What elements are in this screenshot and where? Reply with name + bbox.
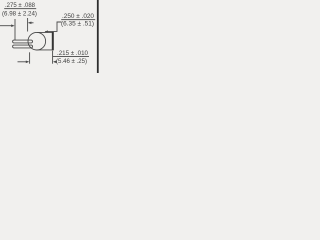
can silhouette top line: [37, 31, 54, 33]
can body circle (end face): [28, 32, 46, 50]
can silhouette bottom line: [37, 49, 54, 51]
leader line from .250 text to can top: [45, 22, 61, 31]
fraction bar top-left: [4, 7, 36, 10]
background: [0, 0, 100, 73]
lead 2 lower wire: [13, 45, 33, 48]
svg-text:(6.98 ± 2.24): (6.98 ± 2.24): [2, 11, 37, 18]
bottom arrowhead pointing right: [26, 61, 29, 64]
svg-text:.215 ± .010: .215 ± .010: [57, 50, 88, 57]
svg-text:.275 ± .088: .275 ± .088: [5, 2, 35, 9]
lead 1 upper wire: [13, 40, 33, 43]
dimension arrow tail right outside: [29, 22, 34, 24]
extension line below can right face: [52, 51, 54, 64]
extension line at lead tips: [14, 19, 16, 40]
arrowhead pointing right at lead-tip extension: [11, 24, 14, 27]
extension line at can left edge: [27, 18, 29, 32]
page border line right edge: [97, 0, 99, 73]
arrowhead pointing left at can-left extension: [28, 22, 31, 25]
bottom dimension arrow tail right: [54, 61, 57, 63]
bottom dimension arrow tail left: [18, 61, 28, 63]
can far face edge bar: [52, 32, 54, 50]
bottom arrowhead pointing left: [53, 61, 56, 64]
svg-text:.250 ± .020: .250 ± .020: [62, 13, 95, 20]
extension line below can left: [29, 52, 31, 63]
svg-text:(5.46 ± .25): (5.46 ± .25): [56, 58, 87, 65]
arrowhead on .250 leader at can top: [45, 30, 48, 32]
svg-text:(6.35 ± .51): (6.35 ± .51): [61, 20, 94, 27]
fraction bar right: [61, 18, 95, 21]
fraction bar bottom: [53, 55, 89, 58]
dimension arrow tail left outside: [0, 25, 13, 27]
